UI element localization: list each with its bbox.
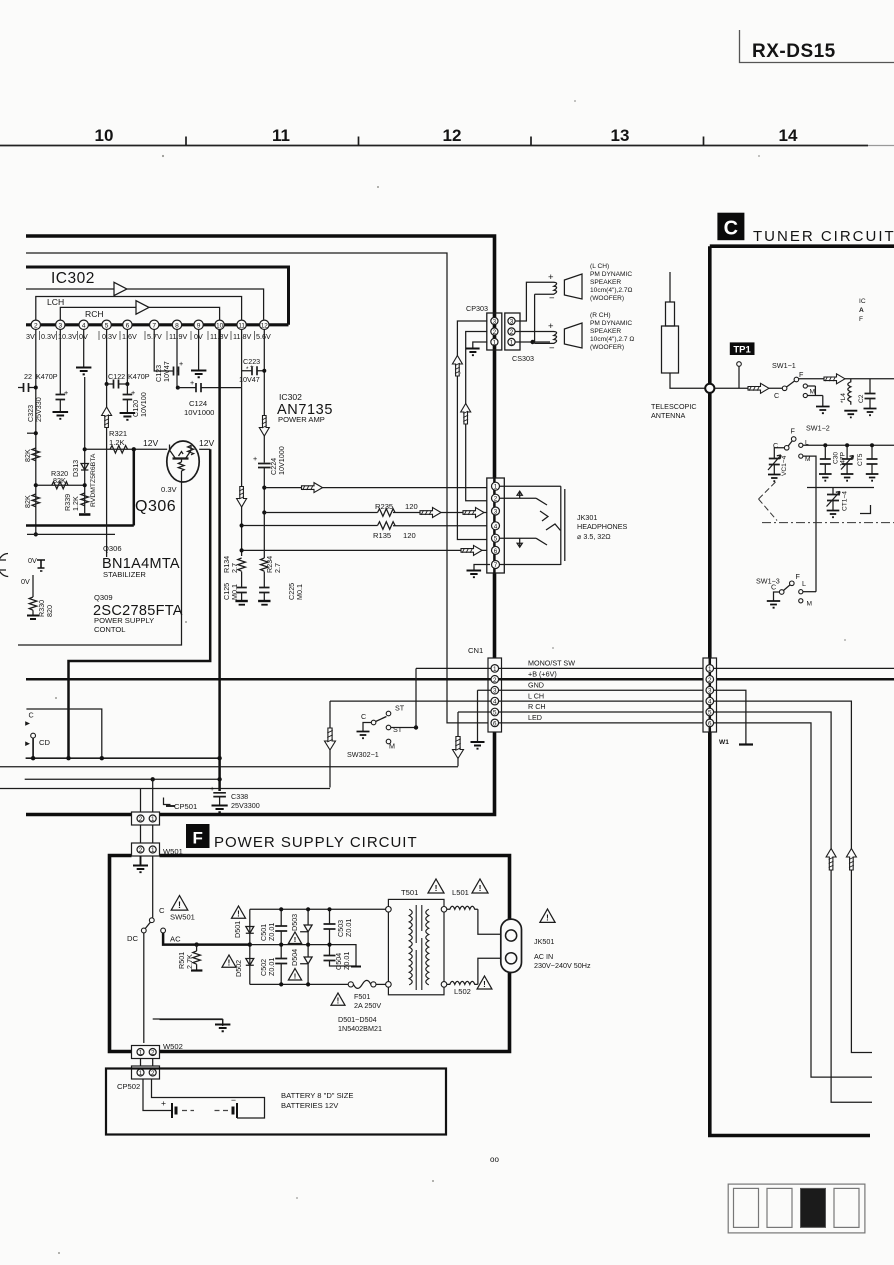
svg-text:!: !	[479, 883, 482, 893]
svg-text:120: 120	[405, 502, 418, 511]
capacitor C504 Z0.01	[324, 945, 362, 970]
signal arrow right antenna	[748, 383, 769, 393]
svg-text:+: +	[161, 1098, 166, 1108]
svg-text:6: 6	[493, 720, 497, 727]
svg-text:10V47: 10V47	[239, 375, 260, 384]
svg-text:C: C	[29, 711, 34, 720]
svg-text:Q306: Q306	[135, 498, 176, 515]
antenna junction circle on border	[705, 384, 714, 393]
svg-text:Z0.01: Z0.01	[344, 919, 353, 937]
svg-text:!: !	[546, 914, 549, 923]
wire op-amp R output to pin10	[149, 307, 220, 319]
svg-text:F: F	[799, 370, 804, 379]
pin 12	[260, 320, 269, 329]
svg-text:CONTOL: CONTOL	[94, 625, 126, 634]
svg-text:Q309: Q309	[94, 593, 113, 602]
svg-text:C: C	[771, 583, 776, 592]
wire junction to D313 chain	[36, 484, 85, 486]
node R135 wire	[240, 523, 244, 527]
svg-text:1: 1	[494, 484, 498, 491]
thick wire Q306 down-left path	[69, 449, 211, 758]
ground mid PS	[153, 1019, 223, 1026]
CD leaf circle	[31, 733, 36, 738]
svg-text:(WOOFER): (WOOFER)	[590, 344, 624, 351]
wire W501 pin1 down to switch	[152, 856, 154, 918]
svg-text:230V~240V 50Hz: 230V~240V 50Hz	[534, 961, 591, 970]
signal arrow right after SW1-1	[824, 374, 845, 384]
capacitor C502 Z0.01	[259, 945, 287, 985]
svg-text:RX-DS15: RX-DS15	[752, 41, 836, 62]
svg-text:4: 4	[708, 699, 712, 706]
svg-text:!: !	[435, 883, 438, 893]
signal arrow right on pin3 wire b	[463, 508, 484, 518]
resistor R321 1.2K	[109, 429, 128, 453]
op-amp U-R	[136, 301, 149, 315]
svg-text:2: 2	[151, 1070, 155, 1077]
wire CT1-4 rail	[807, 487, 874, 489]
svg-text:12V: 12V	[143, 438, 159, 448]
svg-text:9: 9	[197, 322, 201, 329]
svg-text:CP502: CP502	[117, 1082, 140, 1091]
wire pin4 to ground	[83, 330, 85, 368]
voltage separator ticks	[40, 331, 255, 340]
svg-text:6: 6	[494, 548, 498, 555]
signal arrow up x851	[846, 849, 856, 871]
svg-text:11.9V: 11.9V	[169, 332, 187, 341]
svg-text:!: !	[178, 900, 181, 910]
svg-text:1.2K: 1.2K	[71, 496, 80, 511]
svg-text:1N5402BM21: 1N5402BM21	[338, 1024, 382, 1033]
svg-text:STABILIZER: STABILIZER	[103, 570, 146, 579]
nav square 1	[734, 1188, 759, 1227]
node SW302 to MONO wire	[414, 725, 418, 729]
wire W1 pin5 right-down	[714, 712, 872, 1102]
wire pin12 down	[263, 330, 265, 463]
svg-text:SW1−2: SW1−2	[806, 424, 830, 433]
svg-text:+: +	[64, 388, 68, 397]
svg-text:IC302: IC302	[51, 270, 95, 287]
svg-text:3: 3	[708, 688, 712, 695]
svg-text:SW1−3: SW1−3	[756, 577, 780, 586]
svg-text:11: 11	[272, 126, 290, 145]
resistor R135 120	[373, 522, 416, 540]
svg-text:1: 1	[139, 1050, 143, 1057]
capacitor C30 J47P	[819, 445, 847, 480]
wire CP303 pin1 to ground	[473, 342, 488, 348]
svg-text:POWER SUPPLY CIRCUIT: POWER SUPPLY CIRCUIT	[214, 834, 418, 851]
resistor R330 820	[27, 575, 54, 619]
ground pin4	[76, 368, 91, 375]
wire CS303 pin2 to R speaker +	[516, 331, 551, 333]
node R235 wire	[262, 510, 266, 514]
bridge bottom rail	[250, 983, 349, 985]
node R501	[194, 942, 198, 946]
node y779 CP501	[151, 777, 155, 781]
node D504 mid	[306, 943, 310, 947]
node R321 wire start	[83, 447, 87, 451]
wire SW1-2 M drop	[803, 456, 816, 592]
partial IC text right edge	[859, 298, 866, 323]
ground CN1 gnd	[471, 742, 485, 749]
svg-text:A: A	[859, 307, 864, 314]
capacitor C225 M0.1	[258, 572, 304, 605]
speaker R horn	[564, 323, 582, 348]
pin bus wire	[26, 323, 289, 326]
svg-text:C: C	[774, 391, 779, 400]
wire y534	[27, 533, 115, 535]
signal arrow right on pin1 wire	[302, 483, 323, 493]
wire CD drop	[32, 738, 34, 758]
wire W1 pin3 termination	[714, 690, 746, 744]
svg-text:D313: D313	[71, 460, 80, 477]
resistor 82K upper	[23, 448, 40, 462]
label JK301 HEADPHONES	[577, 513, 628, 541]
wire R CH	[458, 711, 706, 713]
switch SW501	[127, 906, 181, 944]
svg-text:1: 1	[139, 1070, 143, 1077]
svg-text:VC1−4: VC1−4	[781, 455, 788, 476]
node C122 left	[105, 382, 109, 386]
bridge top rail	[250, 908, 389, 910]
node C502 bottom	[279, 982, 283, 986]
warning triangle near T501	[428, 879, 444, 893]
nav square 3 filled	[801, 1188, 826, 1227]
tiny arrow left edge a	[25, 721, 30, 726]
warning triangle near F501	[331, 993, 345, 1006]
svg-text:3: 3	[493, 688, 497, 695]
switch SW1-3	[756, 572, 816, 608]
svg-text:W502: W502	[163, 1042, 183, 1051]
wire R speaker minus	[533, 342, 550, 343]
wire MONO/ST	[416, 667, 706, 669]
svg-text:2: 2	[34, 322, 38, 329]
node D504 bottom	[306, 982, 310, 986]
capacitor C503 Z0.01	[324, 909, 354, 944]
wire DC down to W502	[143, 933, 145, 1043]
node D313 lower junction	[83, 483, 87, 487]
trimmer CT5	[841, 445, 864, 480]
wires CP501 to W501	[141, 825, 153, 843]
wire L501 to JK501	[478, 909, 501, 934]
wire LCH to pin11	[36, 297, 242, 321]
svg-text:M: M	[810, 389, 816, 396]
svg-text:D502: D502	[234, 960, 243, 977]
svg-text:L502: L502	[454, 987, 471, 996]
inductor L502	[447, 981, 478, 996]
svg-text:C30: C30	[833, 452, 840, 464]
svg-text:25V330: 25V330	[34, 397, 43, 422]
switch SW1-2	[773, 424, 830, 464]
ground pin9	[191, 371, 206, 378]
diode D504	[290, 945, 312, 985]
svg-text:8: 8	[175, 322, 179, 329]
wire Q306 right 12V	[199, 448, 210, 450]
ground W501 pin2	[133, 856, 148, 872]
node mid junction	[34, 483, 38, 487]
node 433	[34, 431, 38, 435]
resistor R235 120	[375, 502, 418, 516]
label IC302 AN7135 POWER AMP	[277, 392, 333, 424]
wire R135 to JK301 pin4	[242, 525, 488, 527]
speaker L horn	[564, 274, 582, 299]
wire y758 bus	[26, 757, 220, 759]
warning triangle near D502	[222, 955, 236, 968]
transformer T501	[386, 888, 447, 995]
diode D502	[234, 959, 254, 978]
resistor R134 2.7	[222, 556, 245, 573]
node C501 top	[279, 907, 283, 911]
title box RX-DS15	[740, 30, 894, 63]
svg-text:1: 1	[151, 847, 155, 854]
warning triangle near D503	[288, 932, 301, 944]
svg-text:10cm(4"),2.7 Ω: 10cm(4"),2.7 Ω	[590, 336, 634, 343]
svg-text:4: 4	[493, 699, 497, 706]
thick stub down from 12V tap	[133, 449, 136, 525]
svg-text:5: 5	[493, 710, 497, 717]
svg-text:7: 7	[152, 322, 156, 329]
svg-text:10cm(4"),2.7Ω: 10cm(4"),2.7Ω	[590, 287, 633, 294]
svg-text:CT1−4: CT1−4	[842, 491, 849, 511]
capacitor C125 M0.1	[222, 572, 248, 605]
stub at 433	[27, 432, 36, 434]
wire pin11 down	[241, 330, 243, 388]
capacitor C123 10V47	[154, 330, 183, 383]
svg-text:D503: D503	[290, 914, 299, 931]
svg-text:GND: GND	[528, 680, 544, 689]
wire W502 to CP502	[141, 1059, 153, 1067]
capacitor C501 Z0.01	[259, 909, 287, 944]
battery box	[106, 1069, 446, 1135]
svg-text:(L CH): (L CH)	[590, 263, 609, 270]
nav outer box	[728, 1184, 865, 1233]
svg-text:0.3V: 0.3V	[41, 332, 56, 341]
svg-text:+: +	[253, 454, 257, 463]
svg-text:11: 11	[238, 322, 245, 329]
svg-text:PM DYNAMIC: PM DYNAMIC	[590, 271, 632, 278]
trimmer CT1-4	[827, 488, 849, 518]
svg-text:10V1000: 10V1000	[184, 408, 214, 417]
svg-text:C: C	[159, 906, 165, 915]
pin 5	[102, 320, 111, 329]
wire +B thick	[26, 678, 894, 681]
svg-text:F: F	[859, 316, 863, 323]
connector CN1	[488, 658, 502, 732]
inductor L4	[840, 379, 857, 418]
bridge left rail	[249, 909, 251, 984]
svg-text:F: F	[796, 572, 801, 581]
cap at right edge of bank	[866, 443, 879, 480]
svg-text:SW1−1: SW1−1	[772, 361, 796, 370]
wire CP502 pin2 to battery -	[152, 1080, 265, 1119]
warning triangle near L501	[472, 879, 488, 893]
capacitor C322 (cut) K470P	[18, 372, 58, 392]
wire Q306 emitter stem	[18, 482, 182, 646]
svg-text:F: F	[791, 427, 796, 436]
svg-text:5: 5	[708, 710, 712, 717]
svg-text:PM DYNAMIC: PM DYNAMIC	[590, 320, 632, 327]
wire CS303 pin1 common	[516, 341, 551, 343]
svg-text:K470P: K470P	[36, 372, 58, 381]
svg-text:L: L	[802, 579, 806, 588]
node speaker common	[530, 340, 534, 344]
svg-text:3: 3	[493, 318, 497, 325]
svg-text:DC: DC	[127, 934, 138, 943]
pin 10	[215, 320, 224, 329]
connector CP502	[117, 1066, 160, 1091]
wire LED long (thin inner line to CN1 pin6)	[26, 253, 488, 723]
speaker L coil	[550, 282, 557, 294]
svg-text:5.6V: 5.6V	[256, 332, 271, 341]
svg-text:Q306: Q306	[103, 544, 122, 553]
pin 9	[194, 320, 203, 329]
svg-text:+: +	[179, 359, 183, 368]
label R speaker	[590, 312, 634, 351]
svg-text:POWER SUPPLY: POWER SUPPLY	[94, 616, 154, 625]
svg-text:Z0.01: Z0.01	[267, 923, 276, 941]
wire op-amp L output to pin12	[127, 289, 264, 320]
connector JK301	[487, 478, 505, 573]
svg-text:1: 1	[510, 339, 514, 346]
wire CP303 pin2 left drop	[466, 332, 488, 501]
wire CS303 pin3 to L speaker +	[516, 282, 551, 321]
bracket at edge	[860, 505, 871, 514]
section letter F	[186, 824, 210, 848]
wire SW1-2 L rail	[803, 444, 894, 446]
wire op-amp L input	[26, 288, 114, 290]
capacitor C223 10V47	[239, 357, 264, 384]
svg-text:1: 1	[493, 339, 497, 346]
svg-text:13: 13	[611, 126, 630, 145]
svg-text:IC: IC	[859, 298, 866, 305]
svg-text:JK301: JK301	[577, 513, 597, 522]
svg-text:AC: AC	[170, 935, 181, 944]
svg-text:1: 1	[493, 666, 497, 673]
svg-text:oo: oo	[490, 1155, 499, 1164]
node y758 C338	[217, 756, 221, 760]
ruler tick 4	[703, 137, 705, 146]
svg-text:1: 1	[708, 666, 712, 673]
svg-text:2.7K: 2.7K	[185, 954, 194, 969]
wire pin8 down	[176, 330, 178, 388]
capacitor C323 25V330	[26, 330, 68, 423]
resistor R339 1.2K	[63, 493, 88, 511]
section letter C	[717, 213, 744, 241]
node y758 CD	[31, 756, 35, 760]
wire L speaker minus	[535, 294, 550, 342]
signal arrow up x457	[452, 356, 462, 377]
node L rail a	[823, 443, 827, 447]
switch SW302-1	[347, 704, 416, 760]
wire GND drop to ground	[477, 690, 479, 741]
signal arrow down x458 (R CH)	[453, 712, 464, 766]
signal arrow down on pin12 chain	[259, 416, 269, 437]
svg-text:(R CH): (R CH)	[590, 312, 611, 319]
svg-text:M: M	[805, 456, 811, 463]
svg-text:ST: ST	[395, 704, 405, 713]
svg-text:+: +	[190, 378, 194, 387]
svg-text:11.8V: 11.8V	[233, 332, 251, 341]
svg-text:M0.1: M0.1	[295, 584, 304, 600]
svg-text:D504: D504	[290, 949, 299, 966]
svg-text:10: 10	[216, 322, 224, 329]
wire to JK301 pin1	[264, 487, 488, 489]
signal arrow up x831	[826, 849, 836, 871]
TP1 stub	[737, 362, 742, 367]
svg-text:TELESCOPIC: TELESCOPIC	[651, 402, 697, 411]
svg-text:R135: R135	[373, 531, 391, 540]
svg-text:+: +	[548, 272, 554, 283]
capacitor C338 25V3300	[210, 784, 260, 812]
node L rail b	[845, 443, 849, 447]
svg-text:6: 6	[126, 322, 130, 329]
svg-text:2: 2	[493, 329, 497, 336]
fuse F501	[348, 980, 381, 1010]
IC302 box	[26, 267, 289, 325]
svg-text:0.3V: 0.3V	[161, 485, 178, 494]
svg-text:1.6V: 1.6V	[122, 332, 137, 341]
signal arrow right on pin6 wire	[461, 545, 482, 555]
svg-text:M: M	[807, 601, 813, 608]
svg-text:2A 250V: 2A 250V	[354, 1001, 381, 1010]
svg-text:C2: C2	[858, 394, 865, 403]
node pin8 C124	[176, 386, 180, 390]
svg-text:C122: C122	[108, 372, 125, 381]
capacitor C2x at edge	[858, 379, 877, 415]
connector JK501	[501, 919, 522, 972]
wire pin2 chain	[35, 330, 37, 535]
capacitor C122 K470P	[107, 330, 150, 389]
resistor R320 82K	[51, 469, 68, 489]
svg-text:0V: 0V	[21, 577, 30, 586]
node C122 right	[125, 382, 129, 386]
svg-text:L501: L501	[452, 888, 469, 897]
wire RCH input	[60, 307, 136, 320]
wire pin10 thick down	[218, 330, 221, 792]
svg-text:!: !	[237, 910, 240, 919]
svg-text:−: −	[549, 343, 555, 354]
tiny arrow left edge b	[25, 741, 30, 746]
warning triangle near D504	[288, 969, 301, 981]
ruler tick 1	[185, 137, 187, 146]
svg-text:0.3V: 0.3V	[102, 332, 117, 341]
node y758 box corner	[100, 756, 104, 760]
label TP1	[730, 342, 755, 355]
svg-text:12: 12	[261, 322, 269, 329]
wire W1 pin6 right-down	[714, 723, 872, 1077]
svg-text:L CH: L CH	[528, 691, 544, 700]
pin 3	[56, 320, 65, 329]
svg-text:*L4: *L4	[840, 393, 847, 403]
svg-text:120: 120	[403, 531, 416, 540]
svg-text:SW302−1: SW302−1	[347, 750, 379, 759]
nav square 2	[767, 1188, 792, 1227]
CD box	[26, 709, 101, 758]
mini arrow up between pin1-2	[517, 491, 522, 498]
svg-text:(WOOFER): (WOOFER)	[590, 295, 624, 302]
pin 8	[172, 320, 181, 329]
pin 11	[237, 320, 246, 329]
node y758 thick feed	[66, 756, 70, 760]
node C503 top	[327, 907, 331, 911]
transistor Q306	[167, 441, 199, 482]
svg-text:SPEAKER: SPEAKER	[590, 279, 621, 286]
signal arrow up x465	[461, 404, 471, 425]
wire L502 to JK501	[478, 958, 501, 984]
svg-text:4: 4	[494, 523, 498, 530]
label JK501 AC IN	[534, 937, 591, 970]
svg-text:POWER AMP: POWER AMP	[278, 415, 325, 424]
node pin6 jk wire	[240, 548, 244, 552]
